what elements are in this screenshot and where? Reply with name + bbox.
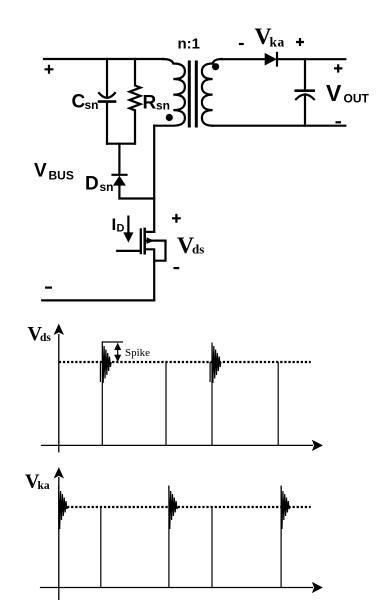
svg-text:D: D — [85, 173, 99, 194]
svg-text:OUT: OUT — [344, 91, 370, 105]
svg-text:ka: ka — [38, 480, 50, 492]
svg-text:sn: sn — [85, 98, 99, 112]
svg-text:BUS: BUS — [49, 169, 74, 183]
svg-text:ds: ds — [192, 242, 204, 257]
svg-text:sn: sn — [156, 99, 170, 113]
svg-text:R: R — [143, 92, 157, 113]
svg-text:sn: sn — [100, 180, 114, 194]
svg-text:ds: ds — [40, 332, 51, 344]
svg-text:D: D — [117, 222, 125, 234]
svg-text:Spike: Spike — [125, 347, 150, 359]
svg-text:ka: ka — [270, 35, 285, 50]
svg-text:V: V — [326, 80, 342, 106]
svg-text:V: V — [34, 161, 47, 182]
svg-text:C: C — [72, 92, 86, 113]
svg-text:n:1: n:1 — [178, 36, 201, 53]
